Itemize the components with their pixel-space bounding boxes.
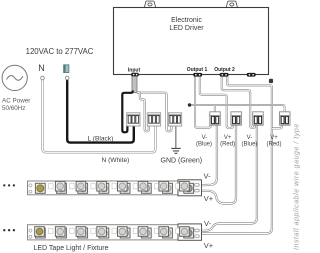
svg-text:V+: V+: [204, 194, 214, 203]
svg-text:GND (Green): GND (Green): [161, 158, 203, 165]
svg-text:120VAC to 277VAC: 120VAC to 277VAC: [26, 47, 94, 56]
svg-text:V+: V+: [224, 135, 232, 141]
svg-text:Output 2: Output 2: [214, 67, 235, 73]
svg-text:(Blue): (Blue): [241, 142, 257, 148]
svg-text:LED Tape Light / Fixture: LED Tape Light / Fixture: [34, 245, 109, 252]
svg-text:(Red): (Red): [220, 142, 235, 148]
svg-text:(Red): (Red): [266, 142, 281, 148]
svg-text:V-: V-: [247, 135, 253, 141]
svg-text:(Blue): (Blue): [196, 142, 212, 148]
svg-text:Output 1: Output 1: [187, 67, 208, 73]
svg-text:V+: V+: [270, 135, 278, 141]
svg-text:AC Power: AC Power: [2, 98, 30, 105]
svg-text:Install applicable wire gauge: Install applicable wire gauge / type: [293, 123, 300, 250]
svg-text:N (White): N (White): [102, 157, 130, 164]
svg-text:V+: V+: [204, 241, 214, 250]
svg-text:V-: V-: [202, 135, 208, 141]
svg-text:50/60Hz: 50/60Hz: [2, 105, 25, 112]
svg-text:LED Driver: LED Driver: [169, 25, 204, 32]
svg-text:V-: V-: [204, 219, 212, 228]
svg-text:Input: Input: [128, 67, 141, 73]
svg-text:N: N: [38, 63, 45, 73]
svg-text:L (Black): L (Black): [88, 135, 114, 142]
svg-text:Electronic: Electronic: [171, 17, 202, 24]
svg-text:V-: V-: [204, 171, 212, 180]
